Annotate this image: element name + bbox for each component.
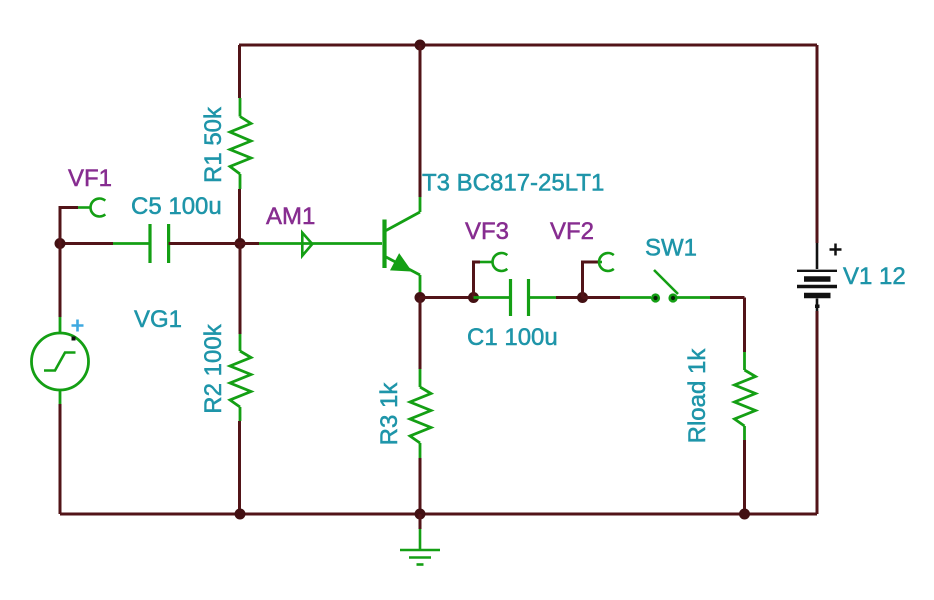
resistor R1 <box>230 98 251 189</box>
wire R1 bottom lead <box>238 189 241 244</box>
svg-text:VG1: VG1 <box>134 306 182 333</box>
wire bottom rail <box>60 513 817 516</box>
wire emitter to VF3 <box>420 296 471 299</box>
node VF2 junction <box>577 292 588 303</box>
wire R2 top lead <box>239 244 242 335</box>
svg-text:VF2: VF2 <box>550 218 594 245</box>
svg-text:R3 1k: R3 1k <box>376 382 403 446</box>
battery plus sign <box>830 244 842 256</box>
wire base segment <box>240 242 382 245</box>
wire collector vertical <box>419 45 422 197</box>
wire C1 right lead <box>529 296 557 299</box>
resistor Rload <box>735 352 756 440</box>
battery V1 <box>797 243 837 311</box>
wire R3 bottom lead <box>419 458 422 514</box>
wire corner to Rload <box>710 298 745 353</box>
ground <box>400 514 440 565</box>
wire C1 left lead <box>474 296 511 299</box>
resistor R3 <box>410 369 431 458</box>
svg-text:SW1: SW1 <box>645 235 697 262</box>
node top collector junction <box>415 40 426 51</box>
label AM1 <box>266 203 315 230</box>
switch SW1 <box>651 270 678 303</box>
label VF3 <box>465 218 509 245</box>
wire C1 to VF2 <box>556 296 583 299</box>
svg-text:C1 100u: C1 100u <box>467 324 558 351</box>
source VG1 plus sign <box>72 320 84 332</box>
ammeter AM1 arrow <box>302 233 312 256</box>
wire V1 lower vertical <box>816 311 819 514</box>
label R3 1k <box>376 382 403 446</box>
node R2 ground junction <box>235 509 246 520</box>
wire switch to corner <box>677 296 710 299</box>
wire R1 top lead <box>238 45 241 98</box>
wire Rload bottom lead <box>743 440 746 514</box>
label VG1 <box>134 306 182 333</box>
svg-text:VF1: VF1 <box>68 165 112 192</box>
label C1 100u <box>467 324 558 351</box>
label C5 100u <box>131 193 222 220</box>
wire C5 right segment <box>169 242 240 245</box>
wire top rail <box>239 44 817 47</box>
node VF1 junction <box>55 238 66 249</box>
probe VF2 <box>583 253 614 297</box>
label V1 12 <box>843 263 906 290</box>
svg-text:AM1: AM1 <box>266 203 315 230</box>
label T3 BC817-25LT1 <box>422 170 604 197</box>
node emitter junction <box>415 292 426 303</box>
svg-text:VF3: VF3 <box>465 218 509 245</box>
label Rload 1k <box>684 348 711 444</box>
probe VF1 <box>60 199 105 244</box>
source VG1 <box>32 317 89 404</box>
label SW1 <box>645 235 697 262</box>
label VF1 <box>68 165 112 192</box>
capacitor C5 <box>150 224 169 263</box>
transistor T3 <box>385 197 421 295</box>
node Rload ground junction <box>739 509 750 520</box>
label R2 100k <box>200 323 227 413</box>
wire to switch <box>620 296 651 299</box>
node base junction <box>235 238 246 249</box>
wire input left segment <box>60 242 113 245</box>
wire V1 upper vertical <box>816 45 819 243</box>
label VF2 <box>550 218 594 245</box>
svg-text:C5 100u: C5 100u <box>131 193 222 220</box>
resistor R2 <box>230 334 251 421</box>
capacitor C1 <box>511 279 529 316</box>
label R1 50k <box>200 106 227 183</box>
wire VF2 right segment <box>583 296 621 299</box>
wire VG1 top lead <box>59 244 62 318</box>
node VF3 junction <box>468 292 479 303</box>
wire C5 left lead <box>113 242 150 245</box>
svg-text:R2 100k: R2 100k <box>200 323 227 413</box>
svg-text:R1 50k: R1 50k <box>200 106 227 183</box>
wire VG1 bottom lead <box>59 404 62 514</box>
wire R3 top lead <box>419 298 422 370</box>
svg-text:V1 12: V1 12 <box>843 263 906 290</box>
svg-text:T3 BC817-25LT1: T3 BC817-25LT1 <box>422 170 604 197</box>
svg-text:Rload 1k: Rload 1k <box>684 348 711 444</box>
wire R2 bottom lead <box>238 421 241 514</box>
probe VF3 <box>474 253 508 298</box>
node ground junction <box>415 509 426 520</box>
